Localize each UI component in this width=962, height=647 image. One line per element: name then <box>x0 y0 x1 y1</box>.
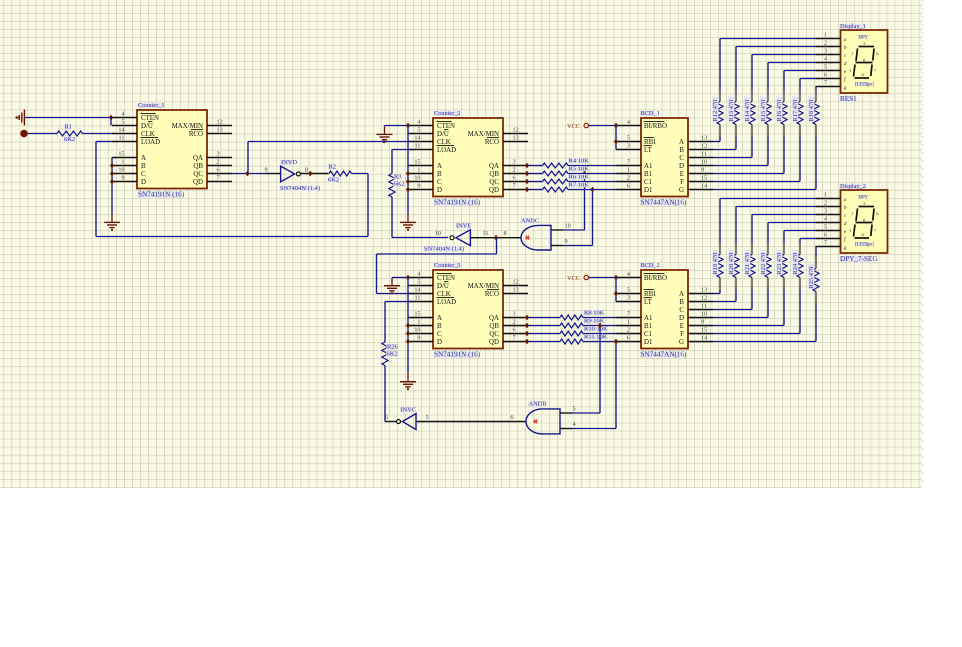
BCD_1 pin 2 C1 <box>616 181 641 183</box>
svg-text:RES1: RES1 <box>840 95 857 103</box>
wire R23 up to display pin (staircase up) <box>783 242 785 254</box>
INVD output pin 8 wire <box>300 173 328 175</box>
svg-text:2: 2 <box>627 326 630 333</box>
svg-text:A1: A1 <box>644 163 653 170</box>
Display_1 pin 2 segment b <box>816 46 841 48</box>
wire R4 to BCD_1 A1 <box>568 165 616 167</box>
Counter_2 pin 2 QB <box>503 173 528 175</box>
IC BCD_2 SN7447AN BCD-to-7seg decoder body <box>641 270 688 349</box>
resistor R3 <box>389 174 395 198</box>
Counter_1 pin 2 QB <box>207 165 232 167</box>
svg-text:10: 10 <box>435 230 441 237</box>
Counter_2 pin 15 A <box>408 165 433 167</box>
svg-text:5: 5 <box>426 414 429 421</box>
svg-text:9: 9 <box>417 182 420 189</box>
resistor R22 470 <box>765 255 771 278</box>
Counter_1 pin 6 QC <box>207 173 232 175</box>
Display_1 pin 7 segment g <box>816 86 841 88</box>
svg-text:LOAD: LOAD <box>437 147 456 154</box>
resistor R23 470 <box>781 255 787 278</box>
Display_1 pin 1 segment a <box>816 38 841 40</box>
wire BCD output row to resistor R22 (staircase down) <box>713 317 768 319</box>
ground left of Counter_2 <box>384 125 386 128</box>
svg-text:R25 470: R25 470 <box>808 267 815 289</box>
svg-text:12: 12 <box>701 294 707 301</box>
wire R21 up to display pin (staircase up) <box>751 242 753 254</box>
BCD_1 pin 6 D1 <box>616 189 641 191</box>
junction Counter_2 QA <box>525 163 529 169</box>
svg-text:6: 6 <box>385 414 388 421</box>
Display_1 pin 3 segment c <box>816 54 841 56</box>
svg-text:QA: QA <box>489 163 499 170</box>
wire Counter_3 QB to resistor R9 <box>528 325 560 327</box>
wire Counter_1 QC to inverter INVD input <box>232 173 266 175</box>
Counter_1 pin 4 CTEN <box>112 117 137 119</box>
svg-text:D1: D1 <box>644 187 653 194</box>
svg-text:RCO: RCO <box>189 131 203 138</box>
svg-text:15: 15 <box>414 158 420 165</box>
svg-text:R24 470: R24 470 <box>792 253 799 275</box>
wire R15 up to display pin (staircase up) <box>767 89 769 101</box>
svg-text:ANDB: ANDB <box>529 401 547 408</box>
svg-text:e: e <box>850 228 852 233</box>
wire Counter_1 LOAD loop (down/right/up to R2) <box>96 141 112 143</box>
svg-text:A: A <box>437 315 442 322</box>
wire R6 to BCD_1 C1 <box>568 181 616 183</box>
Display_2 pin 1 segment a <box>816 198 841 200</box>
svg-text:1: 1 <box>417 318 420 325</box>
BCD_1 pin 10 D <box>688 165 713 167</box>
svg-text:3: 3 <box>513 310 516 317</box>
svg-text:QA: QA <box>193 155 203 162</box>
svg-text:A: A <box>141 155 146 162</box>
IC Counter_3 SN74191N counter body <box>433 270 503 349</box>
BCD_2 pin 10 D <box>688 317 713 319</box>
svg-text:G: G <box>679 187 684 194</box>
svg-text:10: 10 <box>701 158 707 165</box>
svg-text:5: 5 <box>627 134 630 141</box>
Display_1 pin 4 segment d <box>816 62 841 64</box>
wire Counter_3 QD to resistor R11 <box>528 341 560 343</box>
svg-text:QB: QB <box>489 171 499 178</box>
svg-text:10: 10 <box>414 326 420 333</box>
resistor R20 470 <box>733 255 739 278</box>
svg-text:13: 13 <box>701 134 707 141</box>
svg-text:C: C <box>141 171 146 178</box>
svg-text:F: F <box>680 179 684 186</box>
svg-text:9: 9 <box>701 318 704 325</box>
svg-text:R19 470: R19 470 <box>712 253 719 275</box>
svg-text:D: D <box>141 179 146 186</box>
wire junction down-left to Counter_3 CLK <box>496 238 498 254</box>
svg-text:ANDC: ANDC <box>521 217 539 224</box>
junction at Counter_1 CTEN <box>109 115 113 121</box>
svg-text:5: 5 <box>824 223 827 230</box>
svg-text:4: 4 <box>573 421 576 428</box>
svg-text:[LEDgn]: [LEDgn] <box>855 242 874 248</box>
svg-text:a: a <box>864 201 866 206</box>
Display_1 pin 5 segment e <box>816 70 841 72</box>
svg-text:Display_1: Display_1 <box>840 23 866 30</box>
svg-text:E: E <box>680 323 684 330</box>
svg-text:3: 3 <box>627 294 630 301</box>
resistor R25 470 <box>813 269 819 292</box>
junction Counter_1 C <box>110 171 114 177</box>
wire Counter_1 A-D pins to ground <box>111 158 113 215</box>
svg-text:D/U: D/U <box>437 283 449 290</box>
svg-text:15: 15 <box>118 150 124 157</box>
svg-text:LOAD: LOAD <box>437 299 456 306</box>
Display_1 seven-segment digit glyph <box>859 46 875 48</box>
svg-text:5: 5 <box>121 118 124 125</box>
svg-text:SN74191N (16): SN74191N (16) <box>138 191 185 199</box>
resistor R12 470 <box>717 102 723 125</box>
wire R25 up to display pin (staircase up) <box>815 256 817 268</box>
svg-text:a: a <box>864 41 866 46</box>
svg-text:C: C <box>679 307 684 314</box>
svg-text:11: 11 <box>483 230 489 237</box>
Display_1 pin 6 segment f <box>816 78 841 80</box>
junction Counter_3 D <box>406 339 410 345</box>
resistor R16 470 <box>781 102 787 125</box>
Counter_2 pin 12 MAX/MIN <box>503 133 528 135</box>
svg-text:CTEN: CTEN <box>141 115 159 122</box>
resistor R2 <box>329 171 352 176</box>
BCD_2 pin 13 A <box>688 293 713 295</box>
svg-text:1: 1 <box>824 31 827 38</box>
Counter_3 pin 10 C <box>408 333 433 335</box>
svg-text:e: e <box>850 68 852 73</box>
svg-text:4: 4 <box>627 270 630 277</box>
svg-text:C: C <box>437 331 442 338</box>
ground left of Counter_3 <box>391 277 393 279</box>
svg-text:10: 10 <box>414 174 420 181</box>
svg-text:2: 2 <box>513 166 516 173</box>
svg-text:RCO: RCO <box>485 139 499 146</box>
resistor R1 <box>57 131 83 136</box>
resistor R18 470 <box>813 102 819 125</box>
svg-text:C: C <box>679 155 684 162</box>
svg-text:F: F <box>680 331 684 338</box>
svg-text:12: 12 <box>513 278 519 285</box>
junction Counter_3 QD <box>525 339 529 345</box>
svg-text:5: 5 <box>417 278 420 285</box>
svg-text:B: B <box>141 163 146 170</box>
svg-text:2: 2 <box>217 158 220 165</box>
BCD_2 pin 4 BI/RBO <box>616 277 641 279</box>
wire Counter_3 QC to resistor R10 <box>528 333 560 335</box>
svg-text:6K2: 6K2 <box>387 351 398 358</box>
svg-text:5: 5 <box>573 406 576 413</box>
Counter_3 pin 5 D/U <box>408 285 433 287</box>
svg-text:BCD_1: BCD_1 <box>641 110 660 117</box>
svg-text:14: 14 <box>414 134 420 141</box>
resistor R19 470 <box>717 255 723 278</box>
ground under Counter_2 <box>407 214 409 222</box>
svg-text:2: 2 <box>513 318 516 325</box>
svg-text:11: 11 <box>415 142 421 149</box>
wire INVC input to ANDB output (pin 6) <box>416 421 526 423</box>
Counter_2 pin 6 QC <box>503 181 528 183</box>
svg-text:MAX/MIN: MAX/MIN <box>172 123 203 130</box>
Counter_1 pin 3 QA <box>207 157 232 159</box>
svg-text:10: 10 <box>565 223 571 230</box>
svg-text:6: 6 <box>217 166 220 173</box>
svg-text:QD: QD <box>489 187 499 194</box>
svg-text:R7 10K: R7 10K <box>569 181 590 188</box>
wire R19 up to display pin (staircase up) <box>719 242 721 254</box>
Counter_3 pin 11 LOAD <box>408 301 433 303</box>
BCD_1 pin 9 E <box>688 173 713 175</box>
wire BCD output row to resistor R21 (staircase down) <box>713 309 752 311</box>
svg-text:QB: QB <box>193 163 203 170</box>
resistor R21 470 <box>749 255 755 278</box>
ANDC no-ERC red marker <box>525 237 530 239</box>
Counter_2 pin 11 LOAD <box>408 149 433 151</box>
svg-text:D: D <box>437 339 442 346</box>
svg-text:4: 4 <box>417 118 420 125</box>
svg-text:A: A <box>437 163 442 170</box>
svg-text:RCO: RCO <box>485 291 499 298</box>
svg-text:A1: A1 <box>644 315 653 322</box>
svg-text:R13 470: R13 470 <box>728 100 735 122</box>
svg-text:c: c <box>875 67 877 72</box>
svg-text:b: b <box>877 211 879 216</box>
BCD_2 pin 6 D1 <box>616 341 641 343</box>
svg-text:14: 14 <box>701 334 707 341</box>
svg-text:R15 470: R15 470 <box>760 100 767 122</box>
wire Counter_2 CTEN to ground <box>385 125 408 127</box>
svg-text:14: 14 <box>701 182 707 189</box>
Counter_2 pin 13 RCO <box>503 141 528 143</box>
svg-text:10: 10 <box>701 310 707 317</box>
junction Counter_3 CTEN <box>406 275 410 281</box>
svg-text:Counter_3: Counter_3 <box>434 262 461 269</box>
Counter_2 pin 10 C <box>408 181 433 183</box>
ANDC input pin 10 wire to B net <box>551 229 563 231</box>
Display_2 pin 4 segment d <box>816 222 841 224</box>
wire BCD output row to resistor R25 (staircase down) <box>713 341 816 343</box>
svg-text:2: 2 <box>824 199 827 206</box>
ANDC input pin 9 wire to D net <box>551 245 563 247</box>
junction Counter_2 QC <box>525 179 529 185</box>
svg-text:CLK: CLK <box>437 291 451 298</box>
BCD_1 pin 5 RBI <box>616 141 641 143</box>
svg-text:CLK: CLK <box>141 131 155 138</box>
svg-text:VCC: VCC <box>567 123 580 130</box>
svg-text:QC: QC <box>193 171 203 178</box>
Counter_3 pin 2 QB <box>503 325 528 327</box>
inverter INVD (SN7404N) <box>266 173 281 175</box>
svg-text:6: 6 <box>824 71 827 78</box>
junction R7 output / ANDC pin9 <box>590 187 594 193</box>
svg-text:12: 12 <box>701 142 707 149</box>
junction Counter_3 B <box>406 323 410 329</box>
BCD_1 pin 11 C <box>688 157 713 159</box>
svg-text:D1: D1 <box>644 339 653 346</box>
svg-text:CTEN: CTEN <box>437 123 455 130</box>
AND gate ANDC (mirrored) <box>521 225 551 250</box>
svg-text:G: G <box>679 339 684 346</box>
svg-text:R20 470: R20 470 <box>728 253 735 275</box>
svg-text:INVD: INVD <box>281 159 297 166</box>
svg-text:LT: LT <box>644 147 653 154</box>
BCD_2 pin 1 B1 <box>616 325 641 327</box>
Counter_1 pin 14 CLK <box>112 133 137 135</box>
svg-text:D: D <box>679 163 684 170</box>
svg-text:15: 15 <box>414 310 420 317</box>
wire R5 to BCD_1 B1 <box>568 173 616 175</box>
BCD_2 pin 2 C1 <box>616 333 641 335</box>
BCD_1 pin 7 A1 <box>616 165 641 167</box>
resistor R8 10K <box>560 315 583 320</box>
wire BCD output row to resistor R16 (staircase down) <box>713 173 784 175</box>
svg-text:CTEN: CTEN <box>437 275 455 282</box>
svg-text:B: B <box>437 171 442 178</box>
svg-text:SN7404N (1.4): SN7404N (1.4) <box>424 246 464 253</box>
wire junction down to Counter_1 D/U pin <box>110 118 112 126</box>
wire QC junction up and right to Counter_2 CLK <box>247 142 249 174</box>
svg-text:6: 6 <box>511 414 514 421</box>
resistor R6 10K <box>543 179 569 184</box>
IC Counter_1 SN74191N counter body <box>137 110 207 189</box>
junction BCD_2 pin4 <box>614 275 618 281</box>
resistor R10 10K <box>560 331 583 336</box>
wire R17 up to display pin (staircase up) <box>799 89 801 101</box>
Counter_2 pin 14 CLK <box>408 141 433 143</box>
resistor R15 470 <box>765 102 771 125</box>
BCD_2 pin 14 G <box>688 341 713 343</box>
BCD_2 pin 9 E <box>688 325 713 327</box>
svg-text:BI/RBO: BI/RBO <box>644 275 667 282</box>
Display_2 seven-segment digit glyph <box>859 206 875 208</box>
BCD_2 pin 7 A1 <box>616 317 641 319</box>
Display_2 pin 3 segment c <box>816 214 841 216</box>
BCD_1 pin 15 F <box>688 181 713 183</box>
Counter_1 pin 13 RCO <box>207 133 232 135</box>
BCD_2 pin 15 F <box>688 333 713 335</box>
wire R16 up to display pin (staircase up) <box>783 89 785 101</box>
wire R13 up to display pin (staircase up) <box>735 89 737 101</box>
svg-text:B1: B1 <box>644 171 653 178</box>
svg-text:9: 9 <box>121 174 124 181</box>
svg-text:4: 4 <box>824 215 827 222</box>
ANDB no-ERC red marker <box>533 420 538 422</box>
resistor R5 10K <box>543 171 569 176</box>
wire Counter_3 LOAD to resistor R26 <box>385 301 410 303</box>
wire R8 to BCD_2 A1 <box>583 317 616 319</box>
svg-text:6: 6 <box>627 334 630 341</box>
svg-text:R3: R3 <box>394 174 402 181</box>
svg-text:R17 470: R17 470 <box>792 100 799 122</box>
junction R9 output / ANDB pin5 <box>598 323 602 329</box>
svg-text:QA: QA <box>489 315 499 322</box>
svg-text:b: b <box>877 51 879 56</box>
svg-text:5: 5 <box>417 126 420 133</box>
svg-text:A: A <box>679 139 684 146</box>
wire R7 to BCD_1 D1 <box>568 189 616 191</box>
svg-text:Counter_2: Counter_2 <box>434 110 461 117</box>
svg-text:3: 3 <box>513 158 516 165</box>
svg-text:7: 7 <box>627 310 630 317</box>
svg-text:R5 10K: R5 10K <box>569 165 590 172</box>
BCD_1 pin 4 BI/RBO <box>616 125 641 127</box>
BCD_1 pin 1 B1 <box>616 173 641 175</box>
svg-text:LOAD: LOAD <box>141 139 160 146</box>
svg-text:D/U: D/U <box>141 123 153 130</box>
junction BCD_2 RBI <box>614 291 618 297</box>
svg-text:CLK: CLK <box>437 139 451 146</box>
Counter_1 pin 5 D/U <box>112 125 137 127</box>
wire BCD output row to resistor R24 (staircase down) <box>713 333 800 335</box>
wire R10 to BCD_2 C1 <box>583 333 616 335</box>
svg-text:14: 14 <box>118 126 124 133</box>
display Display_1 7-segment DPY body <box>841 30 888 93</box>
svg-text:11: 11 <box>119 134 125 141</box>
wire Counter_3 pin ladder to ground (vertical) <box>407 278 409 374</box>
BCD_1 pin 3 LT <box>616 149 641 151</box>
svg-text:6: 6 <box>824 231 827 238</box>
svg-text:QC: QC <box>489 331 499 338</box>
wire BCD output row to resistor R15 (staircase down) <box>713 165 768 167</box>
Counter_2 pin 5 D/U <box>408 133 433 135</box>
svg-text:5: 5 <box>627 286 630 293</box>
IC BCD_1 SN7447AN BCD-to-7seg decoder body <box>641 118 688 197</box>
svg-text:3: 3 <box>824 207 827 214</box>
wire Counter_2 QB to resistor R5 <box>528 173 543 175</box>
input node dot (port) <box>20 130 28 138</box>
junction Counter_3 QC <box>525 331 529 337</box>
BCD_1 pin 14 G <box>688 189 713 191</box>
junction INVD output <box>308 171 312 177</box>
svg-text:C1: C1 <box>644 179 653 186</box>
svg-text:R8 10K: R8 10K <box>584 309 605 316</box>
svg-text:6K2: 6K2 <box>64 136 75 143</box>
junction BCD_1 RBI <box>614 139 618 145</box>
svg-text:B: B <box>679 147 684 154</box>
svg-text:SN74191N (16): SN74191N (16) <box>434 199 481 207</box>
Counter_2 pin 3 QA <box>503 165 528 167</box>
AND gate ANDB (mirrored) <box>526 409 560 434</box>
Counter_3 pin 1 B <box>408 325 433 327</box>
svg-text:9: 9 <box>701 166 704 173</box>
svg-text:R2: R2 <box>329 164 337 171</box>
svg-text:1: 1 <box>417 166 420 173</box>
svg-text:R16 470: R16 470 <box>776 100 783 122</box>
Display_2 pin 6 segment f <box>816 238 841 240</box>
svg-text:7: 7 <box>513 182 516 189</box>
svg-text:A: A <box>679 291 684 298</box>
wire R26 to INVC output <box>384 366 386 422</box>
svg-text:6: 6 <box>513 174 516 181</box>
junction Counter_3 QB <box>525 323 529 329</box>
svg-text:C: C <box>437 179 442 186</box>
resistor R17 470 <box>797 102 803 125</box>
svg-text:RBI: RBI <box>644 139 656 146</box>
svg-text:E: E <box>680 171 684 178</box>
svg-text:15: 15 <box>701 174 707 181</box>
svg-text:9: 9 <box>265 166 268 173</box>
svg-text:1: 1 <box>824 191 827 198</box>
svg-text:12: 12 <box>513 126 519 133</box>
svg-text:4: 4 <box>627 118 630 125</box>
junction R11 output / ANDB pin4 <box>614 339 618 345</box>
junction Counter_2 CTEN <box>406 123 410 129</box>
wire R9 to BCD_2 B1 <box>583 325 616 327</box>
resistor R7 10K <box>543 187 569 192</box>
svg-text:D/U: D/U <box>437 131 449 138</box>
resistor R13 470 <box>733 102 739 125</box>
